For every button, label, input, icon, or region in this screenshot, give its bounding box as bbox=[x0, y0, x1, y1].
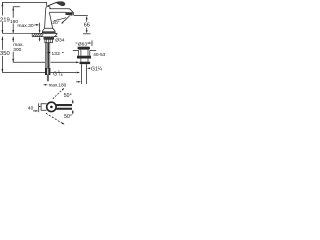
max.180 left dash arrow bbox=[44, 84, 46, 86]
deck surface stub at 66 arrow bbox=[83, 33, 91, 35]
svg-text:Ø63: Ø63 bbox=[78, 41, 88, 47]
svg-text:Ø34: Ø34 bbox=[55, 38, 65, 44]
deck top surface extension line to dimension lines bbox=[2, 32, 32, 34]
svg-text:40: 40 bbox=[28, 105, 34, 111]
faucet base bbox=[42, 28, 55, 33]
bottom view: lever bar top bbox=[56, 104, 72, 106]
value label max. 300 bbox=[11, 42, 15, 51]
pop-up waste: dash left of O63 bbox=[76, 42, 78, 44]
arrow to waste tail on 350 line bbox=[77, 72, 81, 74]
133 arrow bbox=[48, 52, 50, 54]
value label 219 bbox=[0, 16, 10, 22]
bottom view: dashed 50 deg line down bbox=[46, 113, 63, 123]
spout tube bottom bbox=[50, 11, 66, 13]
svg-text:40-53: 40-53 bbox=[93, 52, 105, 57]
G3/8 connector block bbox=[45, 68, 50, 75]
svg-text:20°: 20° bbox=[52, 20, 59, 26]
bottom view: knob outer ring bbox=[47, 102, 56, 111]
faucet body column bbox=[45, 9, 53, 28]
waste tailpiece G 1 1/4 bbox=[81, 64, 86, 84]
angle arc 20 deg bbox=[54, 18, 66, 21]
max.180 right arrow at tail bbox=[76, 81, 78, 83]
svg-text:66: 66 bbox=[84, 23, 90, 29]
66 dimension line lower arrow bbox=[86, 28, 88, 31]
value label 350 bbox=[0, 50, 9, 56]
svg-text:219: 219 bbox=[0, 17, 10, 23]
svg-text:max.180: max.180 bbox=[49, 82, 67, 87]
bottom view: small arrow at rect bbox=[39, 106, 42, 108]
bottom view: 40 leader arrow bbox=[33, 110, 36, 112]
faucet body dome bbox=[46, 6, 51, 9]
wire: 219 extension line and dimension line bbox=[2, 2, 46, 15]
pop-up waste plug cap bbox=[78, 47, 91, 50]
133 right dash bbox=[62, 51, 64, 53]
waste flange band bbox=[77, 56, 91, 59]
deck cross-section right bbox=[54, 33, 57, 36]
waste body through basin bbox=[79, 50, 90, 56]
svg-text:133: 133 bbox=[52, 51, 60, 57]
bottom view: lever bar bottom bbox=[56, 108, 72, 110]
bottom view: spout tip rectangle bbox=[41, 104, 47, 111]
bottom view: swing arrows vertical bbox=[72, 101, 74, 113]
svg-text:max.30: max.30 bbox=[17, 23, 33, 29]
bottom view: wall line bbox=[38, 103, 40, 112]
spout mousseur outlet bbox=[65, 12, 73, 16]
bottom view: knob center dot bbox=[50, 106, 53, 109]
lever handle thin arm bbox=[47, 2, 56, 6]
mounting shank nut bbox=[45, 39, 53, 42]
waste coupling band bbox=[79, 62, 90, 64]
arrow to waste tail on max300 line bbox=[76, 61, 79, 63]
pull rod end bbox=[47, 75, 48, 81]
svg-text:G1¼: G1¼ bbox=[91, 67, 103, 73]
basin surface lines bbox=[73, 49, 96, 51]
66 dimension line upper arrow bbox=[86, 18, 88, 22]
wire: 190 dimension line with short extension bbox=[13, 7, 20, 18]
lever handle knob end bbox=[56, 2, 65, 6]
extension line from spout outlet for 66 bbox=[74, 15, 88, 17]
mounting shank washer bbox=[44, 37, 54, 40]
svg-text:50°: 50° bbox=[64, 114, 72, 120]
spout tube top bbox=[49, 9, 73, 15]
waste neck bbox=[81, 59, 88, 62]
wire: 350 dimension line below deck bbox=[2, 37, 45, 73]
svg-text:8: 8 bbox=[61, 73, 63, 77]
hose and rod bundle bbox=[46, 43, 49, 68]
svg-text:300: 300 bbox=[13, 47, 21, 53]
max.30 extension line with deck arrows bbox=[39, 23, 41, 31]
G1 1/4 arrow bbox=[89, 67, 90, 69]
svg-text:50°: 50° bbox=[64, 93, 72, 99]
bottom view: dashed 50 deg line up bbox=[53, 89, 63, 99]
max.30 leader arrow bbox=[34, 24, 36, 26]
wire: max300 dimension line below deck bbox=[13, 37, 45, 63]
value label 190 bbox=[10, 18, 15, 23]
water jet arrow 20 deg bbox=[63, 16, 70, 22]
svg-text:350: 350 bbox=[0, 51, 10, 57]
deck cross-section left bbox=[32, 33, 43, 36]
pop-up waste: O63 arrow and tick bbox=[87, 42, 89, 44]
